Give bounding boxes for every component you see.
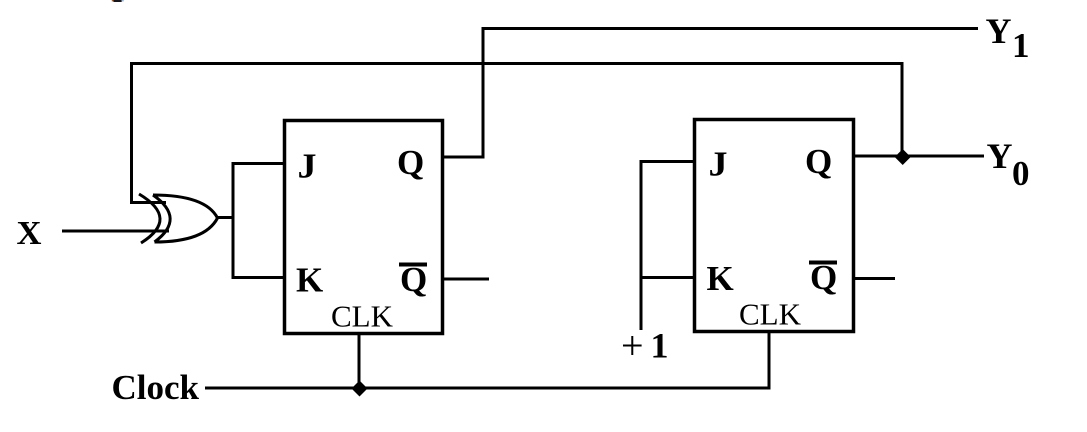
wire K input stub FF2 [640,276,694,279]
wire XOR output splitter vertical [232,162,235,279]
svg-text:CLK: CLK [739,297,802,332]
junction dot clock node [352,381,368,397]
wire Q output stub FF1 [444,156,485,159]
svg-text:K: K [707,259,734,298]
svg-text:X: X [17,215,42,252]
wire XOR top input stub [130,201,166,204]
svg-text:1: 1 [1012,26,1030,65]
JK flip-flop U2 box [695,120,854,332]
wire feedback left vertical down to XOR input [130,62,133,204]
svg-text:Q: Q [397,143,424,182]
wire J input stub FF1 [232,162,283,165]
svg-text:0: 0 [1012,154,1030,193]
svg-text:Y: Y [987,136,1013,176]
wire CLK vertical FF2 [768,333,771,389]
wire feedback horizontal from Y0 node [130,62,904,65]
wire Q-bar output stub FF2 [855,277,895,280]
wire Y1 top horizontal [482,27,979,30]
svg-text:Q: Q [805,142,832,181]
wire CLK vertical FF1 [358,334,361,389]
svg-text:+: + [621,323,644,368]
XOR gate extra input arc [139,194,160,243]
svg-text:Clock: Clock [112,368,200,407]
svg-text:CLK: CLK [331,299,394,334]
wire X input [62,230,169,233]
svg-text:K: K [296,260,323,299]
junction dot Y0 node [895,149,911,165]
XOR gate body [153,195,218,242]
wire +1 input vertical [640,162,643,330]
wire Q output FF2 to Y0 [855,155,984,158]
wire Y0 node vertical to feedback line [901,62,904,156]
JK flip-flop U1 box [285,121,443,334]
wire Y1 vertical from Q of FF1 [482,27,485,157]
wire Clock horizontal [205,387,771,390]
stray cropped glyph fragment at top edge [112,0,114,1]
svg-text:Y: Y [986,11,1012,51]
wire XOR output stub [216,216,234,219]
wire K input stub FF1 [232,276,283,279]
svg-text:J: J [709,145,728,184]
svg-text:J: J [298,147,317,186]
svg-text:1: 1 [651,325,669,365]
wire J input stub FF2 [640,160,694,163]
wire Q-bar output stub FF1 [444,278,489,281]
